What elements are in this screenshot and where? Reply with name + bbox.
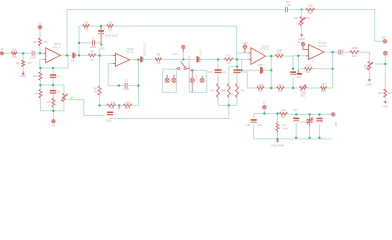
svg-text:GND: GND: [20, 74, 26, 78]
resistor R19: [275, 55, 283, 58]
pin DAC: [182, 45, 185, 48]
resistor R4 ladder: [39, 72, 42, 80]
svg-text:1M: 1M: [44, 40, 48, 44]
svg-text:GND: GND: [366, 83, 372, 87]
svg-text:C20: C20: [321, 117, 324, 122]
svg-text:V5: V5: [38, 21, 42, 25]
svg-text:1N: 1N: [223, 71, 226, 74]
wire psu verticals: [254, 114, 320, 139]
resistor R24: [384, 89, 387, 97]
op-amp IC2A input stubs: [249, 53, 251, 60]
svg-text:R2: R2: [16, 61, 20, 65]
svg-text:R20: R20: [352, 55, 357, 58]
resistor R2: [22, 60, 25, 67]
node psu c3 top: [318, 113, 320, 115]
wire top bypass rail: [67, 10, 383, 56]
resistor R22: [305, 67, 313, 70]
wire middle resistor branch y66.6: [229, 67, 237, 106]
svg-text:AG: AG: [292, 73, 296, 76]
svg-text:100R: 100R: [305, 64, 311, 67]
wire jack area: [163, 69, 177, 92]
wire op3 feedback vertical: [271, 56, 276, 88]
wire V5 pin to R3 to +in: [39, 29, 41, 54]
capacitor C16 top: [286, 7, 288, 12]
svg-text:10UF ELEC: 10UF ELEC: [105, 34, 119, 37]
svg-text:47U: 47U: [257, 124, 262, 127]
wire psu bottom rail: [254, 138, 332, 140]
svg-text:ZD: ZD: [311, 119, 314, 122]
svg-text:10UF ELEC: 10UF ELEC: [199, 49, 202, 63]
resistor R3: [39, 38, 42, 46]
svg-text:10K: 10K: [89, 58, 94, 62]
svg-text:100K: 100K: [125, 107, 131, 110]
wire trimpot2 wiper to pin2: [375, 55, 386, 101]
power +12V: [243, 45, 247, 49]
svg-text:9V: 9V: [263, 101, 266, 105]
svg-text:160P: 160P: [257, 64, 263, 67]
node psu c1 top: [295, 113, 297, 115]
node rail1 x53: [52, 67, 54, 69]
wire op4 -in chain: [293, 56, 308, 88]
ground GND4 arrow: [384, 101, 387, 104]
capacitor C9: [125, 83, 127, 88]
svg-text:R26: R26: [281, 116, 286, 119]
resistor R1: [11, 52, 17, 55]
svg-text:OUT: OUT: [381, 37, 387, 40]
node psu bottom c3: [318, 137, 320, 139]
svg-text:R18: R18: [278, 90, 283, 93]
wire rail3 y105.4: [218, 104, 237, 106]
capacitor C7 elec: [140, 57, 142, 63]
wire fb ladder rail1 y68: [40, 68, 68, 85]
node gnd rail left: [240, 69, 242, 71]
svg-text:R25: R25: [308, 12, 313, 15]
svg-text:R19: R19: [277, 52, 282, 55]
svg-text:10K: 10K: [12, 55, 17, 59]
svg-text:R10: R10: [111, 101, 116, 104]
node psu diode top: [276, 112, 278, 114]
svg-text:47K: 47K: [221, 89, 226, 92]
wire op2 +in bias vertical: [99, 50, 101, 105]
svg-text:R1: R1: [12, 48, 16, 52]
node rail y85.6 left: [118, 84, 120, 86]
jack pad leads: [167, 70, 202, 92]
resistor R25 top: [306, 8, 315, 11]
svg-text:IC1_A: IC1_A: [53, 45, 61, 49]
resistor R7 ladder: [52, 98, 55, 107]
wire trimpot1 wiper to bottom rail: [68, 100, 229, 119]
node rail3 mid: [228, 104, 230, 106]
svg-text:47K: 47K: [210, 89, 215, 92]
diode ZD2 psu: [307, 119, 313, 120]
capacitor C18 psu: [251, 119, 257, 121]
svg-text:10R: 10R: [281, 109, 286, 112]
op-amp IC1B input stubs: [113, 56, 116, 64]
wire op4 feedback R22 loop: [298, 52, 332, 71]
trimpot RT3: [300, 16, 303, 26]
resistor R15: [227, 84, 230, 98]
svg-text:10K: 10K: [364, 64, 367, 69]
svg-text:4K7: 4K7: [278, 84, 283, 87]
svg-text:4.7UF: 4.7UF: [342, 48, 345, 55]
trimpot RT1: [63, 93, 66, 101]
wire C5 gnd tap: [79, 42, 101, 45]
node input R1 junction: [22, 52, 24, 54]
svg-text:47K: 47K: [46, 102, 51, 105]
op-amp IC1A: [46, 48, 61, 63]
node op3 out: [270, 55, 272, 57]
wire fb ladder rail2 y85: [40, 85, 64, 111]
svg-text:C9: C9: [124, 79, 128, 82]
svg-text:10K: 10K: [108, 22, 113, 25]
node mid resistor link: [236, 65, 238, 67]
node psu zd top: [308, 113, 310, 115]
node trimpot2 wiper: [384, 63, 386, 65]
wire dac pin stem: [182, 52, 184, 60]
svg-text:2: 2: [174, 75, 176, 78]
capacitor C20 psu: [316, 118, 322, 120]
ground GND PWR arrow: [276, 140, 279, 143]
svg-text:C3: C3: [57, 91, 61, 94]
wire jack loop B: [189, 70, 207, 92]
svg-text:10UF ELEC: 10UF ELEC: [188, 56, 191, 69]
wire fb ladder rail4 y110.8 with pin stem: [40, 111, 64, 120]
wire op2 -in feedback loop: [100, 60, 139, 106]
resistor R12a: [224, 58, 233, 61]
svg-text:DAC: DAC: [173, 52, 179, 56]
diode D1 psu: [276, 122, 279, 132]
node rail2 x53: [52, 84, 54, 86]
node op4 fb corner: [331, 68, 333, 70]
node cap237 top: [236, 58, 238, 60]
node top rail RT3: [300, 8, 302, 10]
svg-text:47K: 47K: [240, 89, 245, 92]
node rail y85.6 right: [137, 84, 139, 86]
svg-text:JP2: JP2: [195, 75, 198, 80]
resistor R16: [236, 84, 239, 98]
wire psu top y114: [254, 113, 332, 116]
op-amp IC1A input stubs: [43, 53, 46, 59]
capacitor C5: [92, 40, 94, 45]
svg-text:R12: R12: [126, 101, 131, 104]
switch SW1 lever: [180, 61, 185, 67]
svg-text:C18: C18: [246, 124, 251, 127]
capacitor C15: [339, 50, 341, 55]
svg-text:R5: R5: [108, 29, 112, 32]
wire op1 -in loop: [40, 55, 68, 68]
resistor R14: [217, 84, 220, 98]
svg-text:R13: R13: [226, 55, 231, 58]
svg-text:100N: 100N: [106, 120, 112, 123]
node C4 out: [78, 54, 80, 56]
svg-text:IC2_B: IC2_B: [318, 44, 326, 48]
capacitor C14 series: [290, 71, 296, 73]
capacitor C11 bottom: [118, 106, 120, 109]
svg-text:100R: 100R: [351, 47, 357, 50]
svg-text:R17: R17: [258, 90, 263, 93]
node cap293 top: [292, 68, 294, 70]
svg-text:22K: 22K: [156, 62, 161, 65]
resistor R17: [257, 87, 264, 90]
node r10 r12 mid: [118, 104, 120, 106]
resistor R6: [88, 54, 95, 57]
node op4 -in: [297, 55, 299, 57]
wire bias rail y26: [79, 26, 237, 59]
jack pad X3: [190, 78, 194, 82]
svg-text:10K: 10K: [378, 92, 383, 95]
wire op2 out main chain: [129, 58, 251, 60]
wire cap218 branch: [217, 59, 219, 105]
resistor R23b: [321, 87, 327, 90]
pin V5B: [52, 120, 55, 123]
svg-text:50K: 50K: [294, 17, 299, 20]
wire R2 to gnd: [22, 53, 24, 71]
node fb rail r17 r18: [270, 87, 272, 89]
svg-text:C12: C12: [242, 71, 247, 74]
switch SW1 contact leads: [176, 68, 189, 70]
svg-text:100K: 100K: [307, 4, 313, 7]
svg-text:GND: GND: [99, 47, 105, 51]
switch SW1 contacts: [178, 67, 180, 69]
wire op3 gnd rail y70.3 with C13: [242, 59, 272, 70]
svg-text:+: +: [104, 27, 106, 31]
resistor R8 bias: [98, 86, 101, 95]
ground GND3 arrow: [368, 79, 371, 82]
svg-text:47K: 47K: [226, 62, 231, 65]
svg-text:10K: 10K: [69, 96, 74, 99]
wire op3 out: [266, 55, 294, 57]
svg-text:+9V: +9V: [335, 122, 338, 127]
svg-text:R24: R24: [388, 92, 392, 95]
jack pad X1: [165, 78, 169, 82]
node C5 tap: [78, 42, 80, 44]
svg-text:220P: 220P: [123, 88, 129, 91]
svg-text:100R: 100R: [257, 84, 263, 87]
ground AGND2: [297, 70, 299, 73]
svg-text:1K: 1K: [35, 93, 38, 96]
svg-text:C10: C10: [208, 71, 213, 74]
svg-text:10UF ELEC: 10UF ELEC: [144, 43, 147, 57]
svg-text:R6: R6: [90, 49, 94, 53]
capacitor C19 psu: [293, 118, 299, 120]
svg-text:R9: R9: [157, 53, 161, 56]
svg-text:R21: R21: [301, 94, 306, 97]
node op2 +in: [98, 54, 100, 56]
svg-text:R22: R22: [306, 71, 311, 74]
svg-text:R23: R23: [321, 90, 326, 93]
resistor R9: [155, 58, 162, 61]
svg-text:4U7: 4U7: [296, 76, 301, 79]
svg-text:AGND: AGND: [298, 38, 305, 41]
node psu r23 in: [263, 112, 265, 114]
node op2 out: [137, 59, 139, 61]
node psu bottom c1: [295, 137, 297, 139]
svg-text:C4: C4: [71, 59, 75, 63]
node op1 +in: [39, 52, 41, 54]
capacitor C1: [32, 51, 34, 56]
svg-text:47K: 47K: [27, 61, 32, 65]
capacitor C13: [260, 67, 262, 74]
node dac stem: [182, 58, 184, 60]
svg-text:GND_PWR: GND_PWR: [271, 145, 283, 148]
svg-text:GND: GND: [383, 106, 389, 109]
svg-text:100N: 100N: [90, 45, 96, 49]
pin V9 psu feed: [263, 106, 266, 109]
svg-text:47K: 47K: [110, 107, 115, 110]
node psu bottom zd: [308, 137, 310, 139]
ground GND2 arrow: [100, 44, 103, 47]
capacitor C6 elec: [100, 26, 102, 30]
wire fb rail y88: [247, 69, 332, 88]
resistor R5b: [107, 25, 113, 28]
svg-text:+12V: +12V: [242, 41, 248, 45]
pin OUT1: [383, 40, 386, 43]
input pin J_IN: [0, 52, 3, 55]
svg-text:IC2_A: IC2_A: [261, 47, 269, 51]
node rail2 x40: [39, 84, 41, 86]
pin VCC psu: [332, 113, 335, 116]
pin OUT4: [301, 43, 304, 46]
wire cap237 branch: [236, 59, 238, 105]
trimpot R21: [300, 87, 307, 90]
svg-text:V5: V5: [52, 124, 56, 128]
wire input chain: [3, 52, 43, 54]
svg-text:IN: IN: [298, 41, 301, 44]
capacitor C12: [233, 69, 240, 71]
resistor R20: [350, 51, 359, 54]
wire op3 +in feed: [237, 52, 251, 54]
pin V5A: [38, 26, 41, 29]
node bias R4 R5: [100, 25, 102, 27]
node gnd rail fb cross: [270, 69, 272, 71]
resistor R12b: [123, 104, 131, 107]
node rail1 x40: [39, 67, 41, 69]
svg-text:IC1_B: IC1_B: [126, 50, 134, 54]
node fb rail cap293: [292, 87, 294, 89]
capacitor C10: [214, 69, 221, 71]
node rail4 x53: [52, 110, 54, 112]
op-amp IC1B: [115, 53, 129, 66]
pin OUT2: [384, 52, 387, 55]
ground GND1: [22, 71, 24, 73]
resistor R18: [277, 87, 285, 90]
svg-text:IN: IN: [1, 47, 4, 51]
op-amp IC2A: [251, 48, 266, 65]
svg-text:C16: C16: [286, 4, 291, 7]
resistor R4b: [83, 25, 89, 28]
svg-text:4K7: 4K7: [33, 75, 38, 78]
wire trimpot1 branch: [63, 85, 65, 111]
svg-text:R3: R3: [33, 40, 37, 44]
capacitor C8 elec: [196, 56, 198, 62]
node psu bottom diode: [276, 138, 278, 140]
node cap218 top: [217, 58, 219, 60]
svg-text:R4: R4: [84, 29, 88, 32]
svg-text:10K: 10K: [84, 22, 89, 25]
capacitor C2 ladder: [50, 74, 56, 76]
trimpot RT2: [368, 61, 371, 70]
capacitor C4: [72, 53, 74, 59]
node op1 out bypass: [66, 54, 68, 56]
svg-text:R16: R16: [229, 93, 234, 96]
ground AGND1 arrow: [300, 34, 303, 37]
jack pad X4: [200, 78, 204, 82]
svg-text:4148: 4148: [282, 127, 288, 130]
svg-text:1M: 1M: [93, 91, 96, 94]
resistor R23 psu: [279, 112, 287, 115]
svg-text:RT3: RT3: [305, 17, 310, 20]
svg-text:1K0: 1K0: [321, 83, 326, 86]
jack pad X2: [172, 78, 176, 82]
wire op4 out chain: [324, 52, 369, 79]
resistor R5 ladder: [39, 89, 42, 98]
node jack wire mid: [191, 69, 193, 71]
wire V9 stem: [263, 109, 265, 114]
resistor R10: [107, 104, 116, 107]
capacitor C3 ladder: [50, 90, 56, 92]
node r10 rail left: [98, 104, 100, 106]
op-amp IC2B: [308, 44, 323, 59]
svg-text:C5: C5: [92, 36, 96, 40]
wire op1 out chain: [60, 54, 115, 56]
svg-text:C2: C2: [57, 75, 61, 78]
svg-text:100N: 100N: [30, 56, 36, 60]
svg-text:C17: C17: [293, 109, 298, 112]
op-amp IC2B input stubs: [306, 49, 308, 55]
node op4 out: [331, 51, 333, 53]
